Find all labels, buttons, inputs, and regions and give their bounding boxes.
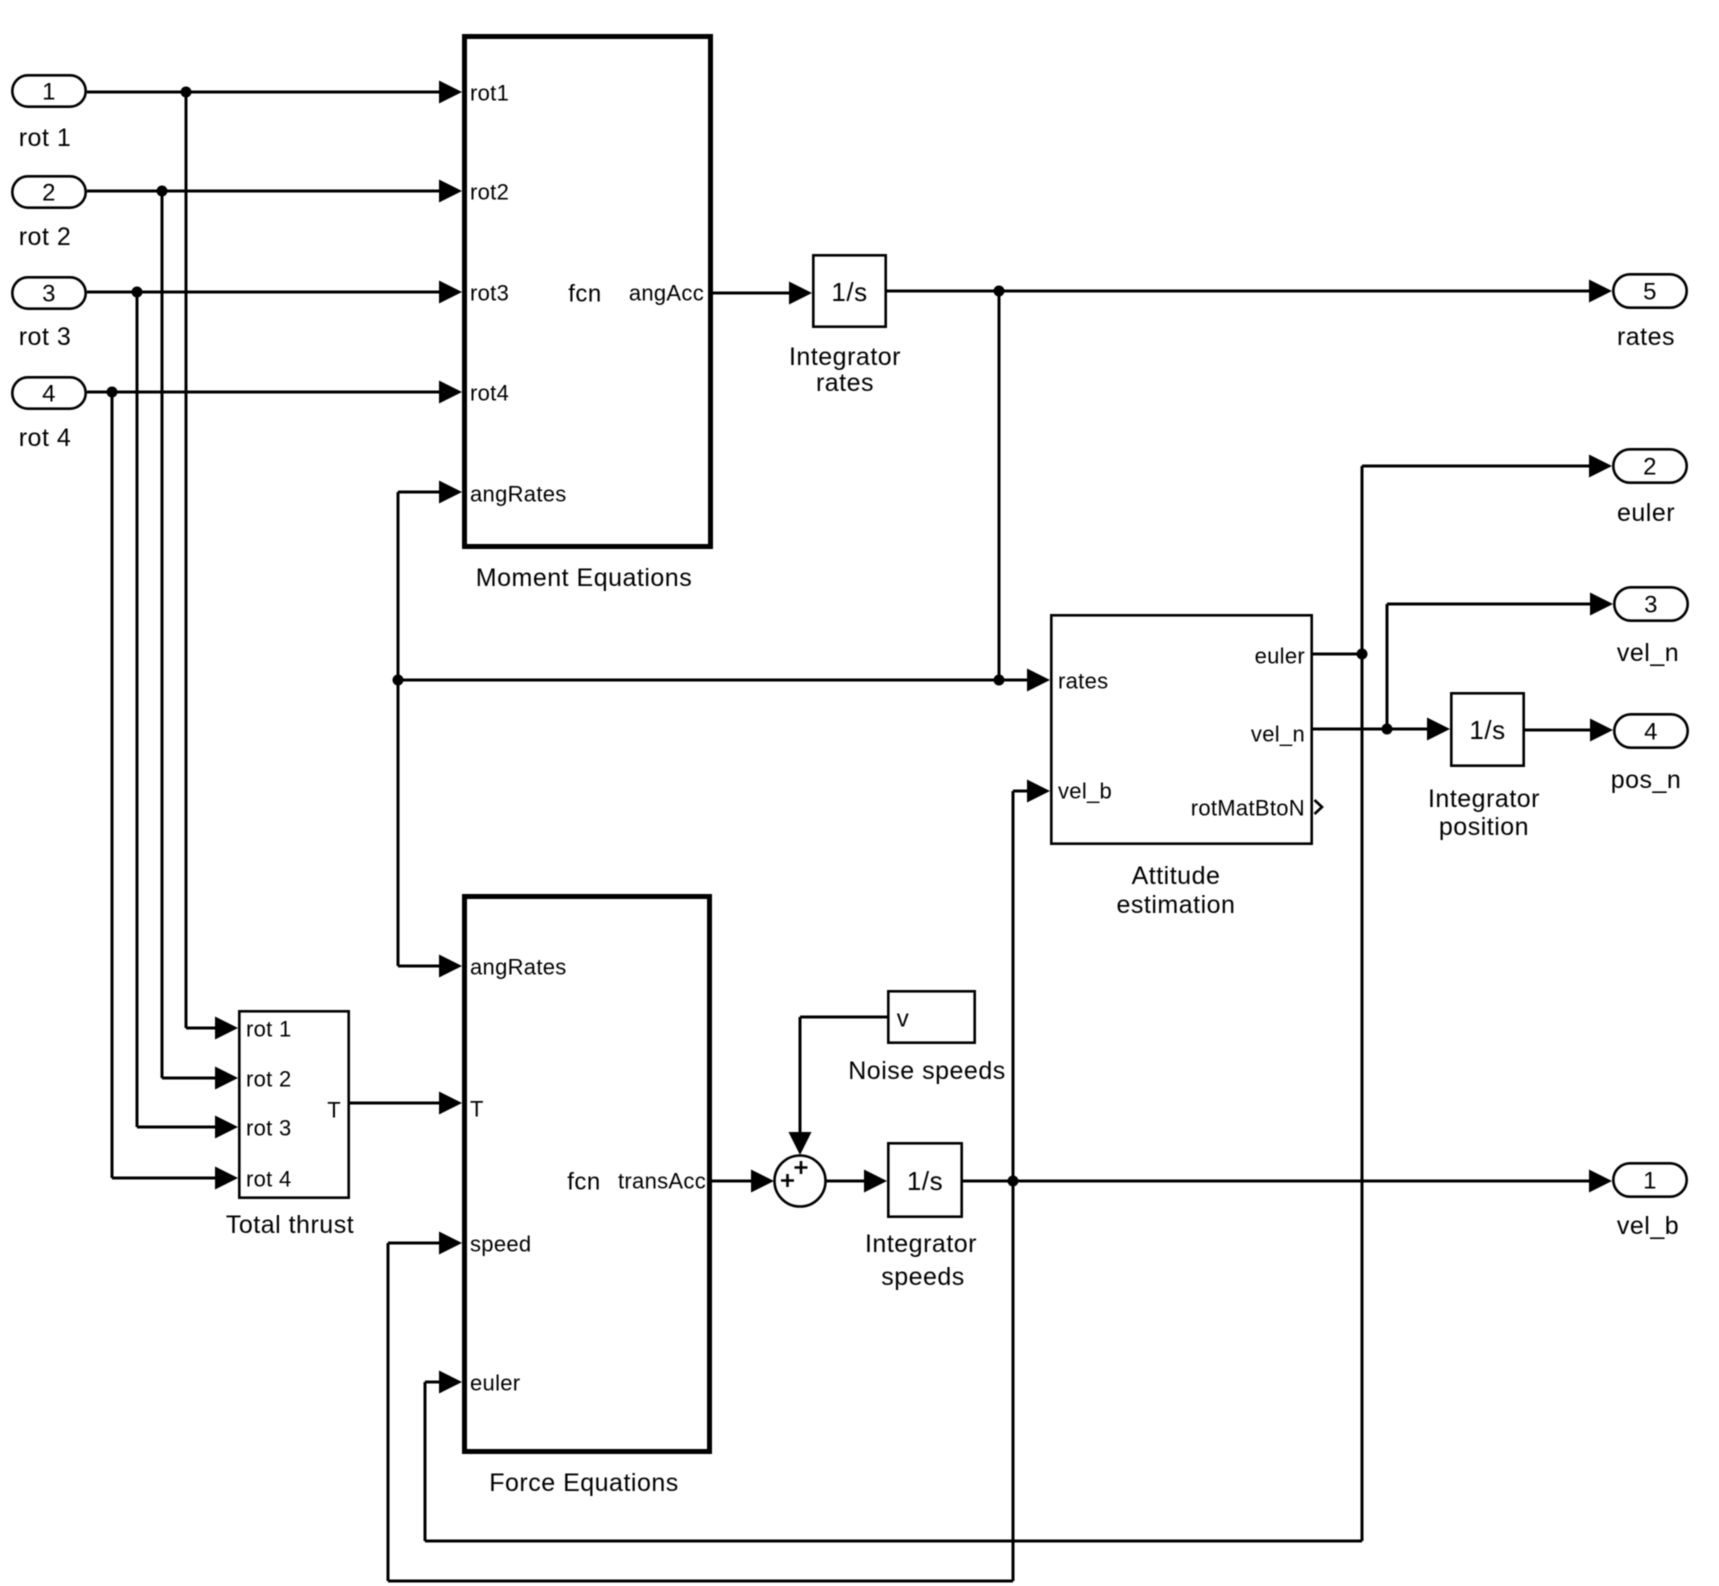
svg-text:speed: speed — [470, 1232, 531, 1257]
svg-text:Force Equations: Force Equations — [489, 1469, 679, 1497]
svg-text:fcn: fcn — [568, 281, 602, 308]
svg-text:1: 1 — [42, 79, 56, 106]
svg-text:T: T — [327, 1098, 341, 1123]
svg-text:rot 3: rot 3 — [246, 1116, 292, 1141]
svg-text:3: 3 — [42, 281, 56, 308]
svg-text:rot 1: rot 1 — [19, 124, 72, 152]
svg-text:4: 4 — [1644, 719, 1658, 746]
svg-text:1/s: 1/s — [831, 277, 867, 307]
svg-text:1/s: 1/s — [907, 1166, 943, 1196]
svg-text:pos_n: pos_n — [1611, 766, 1682, 794]
svg-text:euler: euler — [470, 1371, 520, 1396]
svg-text:rot2: rot2 — [470, 180, 509, 205]
svg-text:transAcc: transAcc — [618, 1169, 706, 1194]
svg-text:vel_n: vel_n — [1251, 722, 1305, 747]
svg-text:fcn: fcn — [567, 1169, 601, 1196]
svg-text:angAcc: angAcc — [629, 281, 704, 306]
svg-text:Attitude: Attitude — [1132, 862, 1221, 890]
svg-text:vel_b: vel_b — [1617, 1212, 1679, 1240]
svg-text:3: 3 — [1644, 592, 1658, 619]
svg-text:Total thrust: Total thrust — [226, 1211, 354, 1239]
svg-text:vel_n: vel_n — [1617, 639, 1679, 667]
svg-text:angRates: angRates — [470, 482, 567, 507]
svg-text:rot 1: rot 1 — [246, 1017, 292, 1042]
svg-text:rot 4: rot 4 — [19, 424, 72, 452]
svg-text:v: v — [897, 1006, 910, 1033]
svg-text:rates: rates — [1058, 669, 1108, 694]
svg-text:rot 4: rot 4 — [246, 1167, 292, 1192]
svg-text:4: 4 — [42, 381, 56, 408]
svg-text:rates: rates — [816, 369, 874, 397]
svg-text:rot 2: rot 2 — [19, 223, 72, 251]
svg-text:Integrator: Integrator — [789, 343, 901, 371]
svg-text:vel_b: vel_b — [1058, 779, 1112, 804]
svg-text:Noise speeds: Noise speeds — [848, 1057, 1005, 1085]
svg-text:rot 3: rot 3 — [19, 323, 72, 351]
svg-text:rot4: rot4 — [470, 381, 509, 406]
svg-text:Moment Equations: Moment Equations — [476, 564, 692, 592]
svg-text:T: T — [470, 1097, 484, 1122]
svg-text:Integrator: Integrator — [865, 1230, 977, 1258]
svg-text:1/s: 1/s — [1469, 715, 1505, 745]
svg-text:rates: rates — [1617, 323, 1675, 351]
svg-text:euler: euler — [1617, 499, 1675, 527]
svg-text:Integrator: Integrator — [1428, 785, 1540, 813]
svg-text:2: 2 — [1643, 454, 1657, 481]
svg-text:estimation: estimation — [1117, 891, 1236, 919]
svg-text:1: 1 — [1643, 1168, 1657, 1195]
svg-text:position: position — [1439, 813, 1529, 841]
svg-text:rot 2: rot 2 — [246, 1067, 292, 1092]
svg-text:speeds: speeds — [881, 1263, 965, 1291]
svg-text:rot3: rot3 — [470, 281, 509, 306]
svg-text:angRates: angRates — [470, 955, 567, 980]
svg-text:2: 2 — [42, 180, 56, 207]
svg-text:rot1: rot1 — [470, 81, 509, 106]
svg-text:5: 5 — [1643, 279, 1657, 306]
svg-text:rotMatBtoN: rotMatBtoN — [1191, 796, 1305, 821]
svg-text:euler: euler — [1255, 644, 1305, 669]
